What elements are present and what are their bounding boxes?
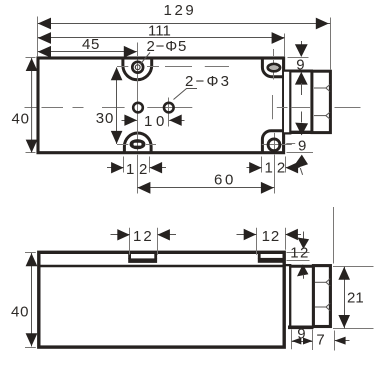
dimension 111	[38, 23, 285, 57]
svg-text:30: 30	[96, 110, 115, 127]
bottom view notch left	[128, 254, 157, 263]
svg-text:12: 12	[133, 228, 154, 245]
bottom view chamfer mark lower	[315, 303, 330, 310]
svg-text:9: 9	[298, 138, 306, 155]
svg-text:45: 45	[82, 36, 100, 53]
bottom view connector middle section	[288, 266, 314, 327]
dimension 7	[316, 331, 349, 351]
dimension 60	[137, 157, 274, 194]
bottom view body	[39, 252, 284, 347]
dimension 10	[122, 113, 185, 130]
svg-text:9: 9	[297, 326, 305, 343]
dimension 129	[38, 2, 331, 70]
dimension 12 top view right	[247, 157, 300, 177]
dimension 21	[333, 267, 374, 329]
centerline column through left holes	[137, 43, 139, 194]
dimension 40 top view	[12, 58, 38, 153]
top view body	[38, 58, 284, 153]
boss bottom-left	[124, 133, 151, 154]
top view connector middle section	[290, 71, 313, 132]
centerline rows top view	[42, 67, 361, 145]
hole top-left 5mm	[132, 62, 143, 73]
label 2-phi3 with leader	[174, 73, 232, 99]
dimension 9 bottom view	[292, 326, 313, 351]
top view connector end block	[312, 71, 331, 132]
dimension 12 bottom view right notch	[237, 228, 302, 255]
svg-text:9: 9	[296, 56, 304, 73]
dimension 9 bottom	[286, 112, 313, 175]
dimension 45	[38, 36, 137, 58]
hole bottom-right with cross	[262, 133, 292, 158]
svg-text:40: 40	[12, 111, 30, 128]
svg-text:2−Φ3: 2−Φ3	[185, 73, 231, 90]
svg-text:40: 40	[11, 303, 29, 320]
dimension 40 bottom view	[11, 253, 37, 348]
boss top-left	[123, 59, 152, 80]
bottom view notch right	[258, 254, 285, 263]
dimension 30	[96, 67, 123, 144]
svg-text:7: 7	[316, 331, 324, 348]
dimension 12 top view left	[107, 157, 166, 179]
svg-text:111: 111	[148, 23, 171, 40]
top view end block chamfer mark lower	[314, 112, 330, 119]
dimension 12 step at connector	[287, 232, 310, 279]
dimension 9 top	[288, 41, 309, 95]
bottom view top plate line	[41, 265, 284, 267]
svg-text:129: 129	[164, 2, 197, 19]
bottom view connector tab	[285, 265, 291, 327]
slot bottom-left	[131, 141, 144, 148]
svg-text:12: 12	[262, 228, 281, 245]
svg-text:12: 12	[126, 161, 152, 178]
hole middle-right 3mm with cross	[160, 98, 186, 127]
corner boss bottom-right	[262, 131, 284, 154]
dimension 12 bottom view left notch	[111, 228, 177, 255]
top view end block chamfer mark upper	[314, 85, 330, 92]
bottom view chamfer mark upper	[315, 279, 330, 286]
svg-text:10: 10	[144, 113, 168, 130]
centerline column through top-right oval	[273, 49, 275, 80]
label 2-phi5 with leader	[140, 38, 187, 64]
oval slot top-right	[268, 64, 280, 71]
svg-text:12: 12	[290, 245, 310, 262]
projection line between views	[333, 207, 335, 264]
top view connector tab	[284, 71, 290, 134]
hole middle-left 3mm	[133, 103, 143, 113]
svg-text:12: 12	[265, 160, 290, 177]
svg-text:60: 60	[214, 172, 236, 189]
svg-text:21: 21	[347, 290, 364, 307]
corner boss top-right	[262, 59, 284, 77]
bottom view connector end block	[313, 266, 330, 327]
svg-text:2−Φ5: 2−Φ5	[147, 38, 188, 55]
